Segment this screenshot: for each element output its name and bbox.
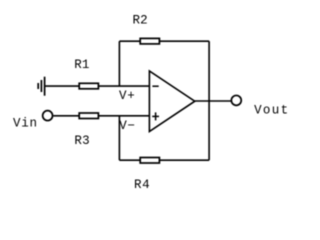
- terminal Vin: [43, 111, 53, 121]
- terminal Vout: [231, 95, 241, 105]
- wire R1 to op-amp inverting input: [99, 85, 149, 87]
- wire right vertical R2 to R4: [208, 41, 210, 160]
- resistor R2: [140, 38, 159, 44]
- wire op-amp output to Vout: [195, 100, 232, 102]
- op-amp minus sign: [152, 85, 158, 87]
- op-amp plus sign: [152, 115, 159, 117]
- wire top R2 row: [119, 40, 209, 42]
- svg-text:R1: R1: [74, 58, 89, 72]
- svg-text:Vout: Vout: [254, 103, 288, 117]
- svg-text:Vin: Vin: [13, 116, 37, 130]
- wire ground to R1: [45, 85, 80, 87]
- wire bottom R4 row: [119, 159, 209, 161]
- svg-text:V−: V−: [119, 119, 135, 133]
- svg-text:V+: V+: [119, 89, 135, 103]
- wire R3 to op-amp non-inverting input: [99, 115, 149, 117]
- svg-text:R2: R2: [133, 14, 148, 28]
- resistor R3: [79, 113, 98, 119]
- wire Vin terminal to R3: [53, 115, 79, 117]
- svg-text:R4: R4: [134, 178, 150, 192]
- resistor R4: [140, 158, 159, 164]
- resistor R1: [79, 83, 98, 89]
- wire node V- down to R4 row: [118, 116, 120, 160]
- ground: [38, 77, 44, 96]
- svg-text:R3: R3: [74, 134, 89, 148]
- wire node V+ up to R2 row: [118, 41, 120, 86]
- op-amp U1: [149, 71, 194, 132]
